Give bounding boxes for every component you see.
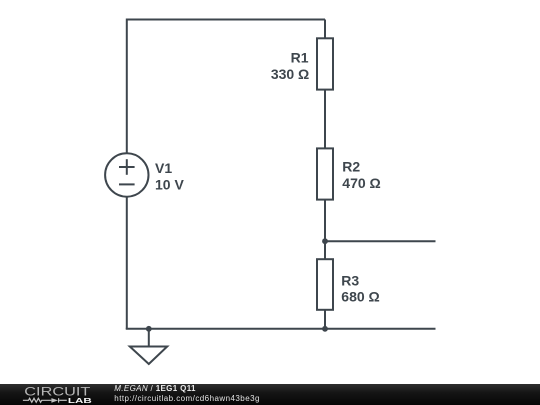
ground	[130, 329, 167, 364]
CircuitLab logo	[0, 384, 110, 405]
svg-text:R3: R3	[341, 273, 359, 289]
resistor R3	[317, 259, 333, 310]
wire R1 to R2	[324, 90, 326, 149]
wire R1 top lead	[324, 20, 326, 39]
wire top horizontal	[127, 19, 325, 21]
junction node at ground	[146, 326, 152, 332]
svg-text:680 Ω: 680 Ω	[341, 289, 379, 305]
svg-text:V1: V1	[155, 160, 172, 176]
resistor R2	[317, 148, 333, 199]
svg-text:330 Ω: 330 Ω	[271, 66, 309, 82]
wire bottom rail	[126, 328, 436, 330]
voltage source V1	[105, 153, 148, 196]
junction node between R2 and R3	[322, 238, 328, 244]
junction node bottom below R3	[322, 326, 328, 332]
svg-text:470 Ω: 470 Ω	[342, 175, 380, 191]
wire R2 to R3	[324, 200, 326, 260]
wire R3 bottom lead	[324, 310, 326, 329]
footer bar	[0, 384, 540, 405]
svg-text:R2: R2	[342, 159, 360, 175]
svg-text:R1: R1	[291, 50, 309, 66]
resistor R1	[317, 38, 333, 89]
wire left vertical to V1 top	[126, 19, 128, 154]
svg-text:LAB: LAB	[68, 396, 93, 405]
wire middle tap to right	[325, 240, 436, 242]
svg-text:10 V: 10 V	[155, 177, 184, 193]
wire V1 bottom to bottom rail	[126, 197, 128, 330]
footer text	[114, 385, 196, 393]
